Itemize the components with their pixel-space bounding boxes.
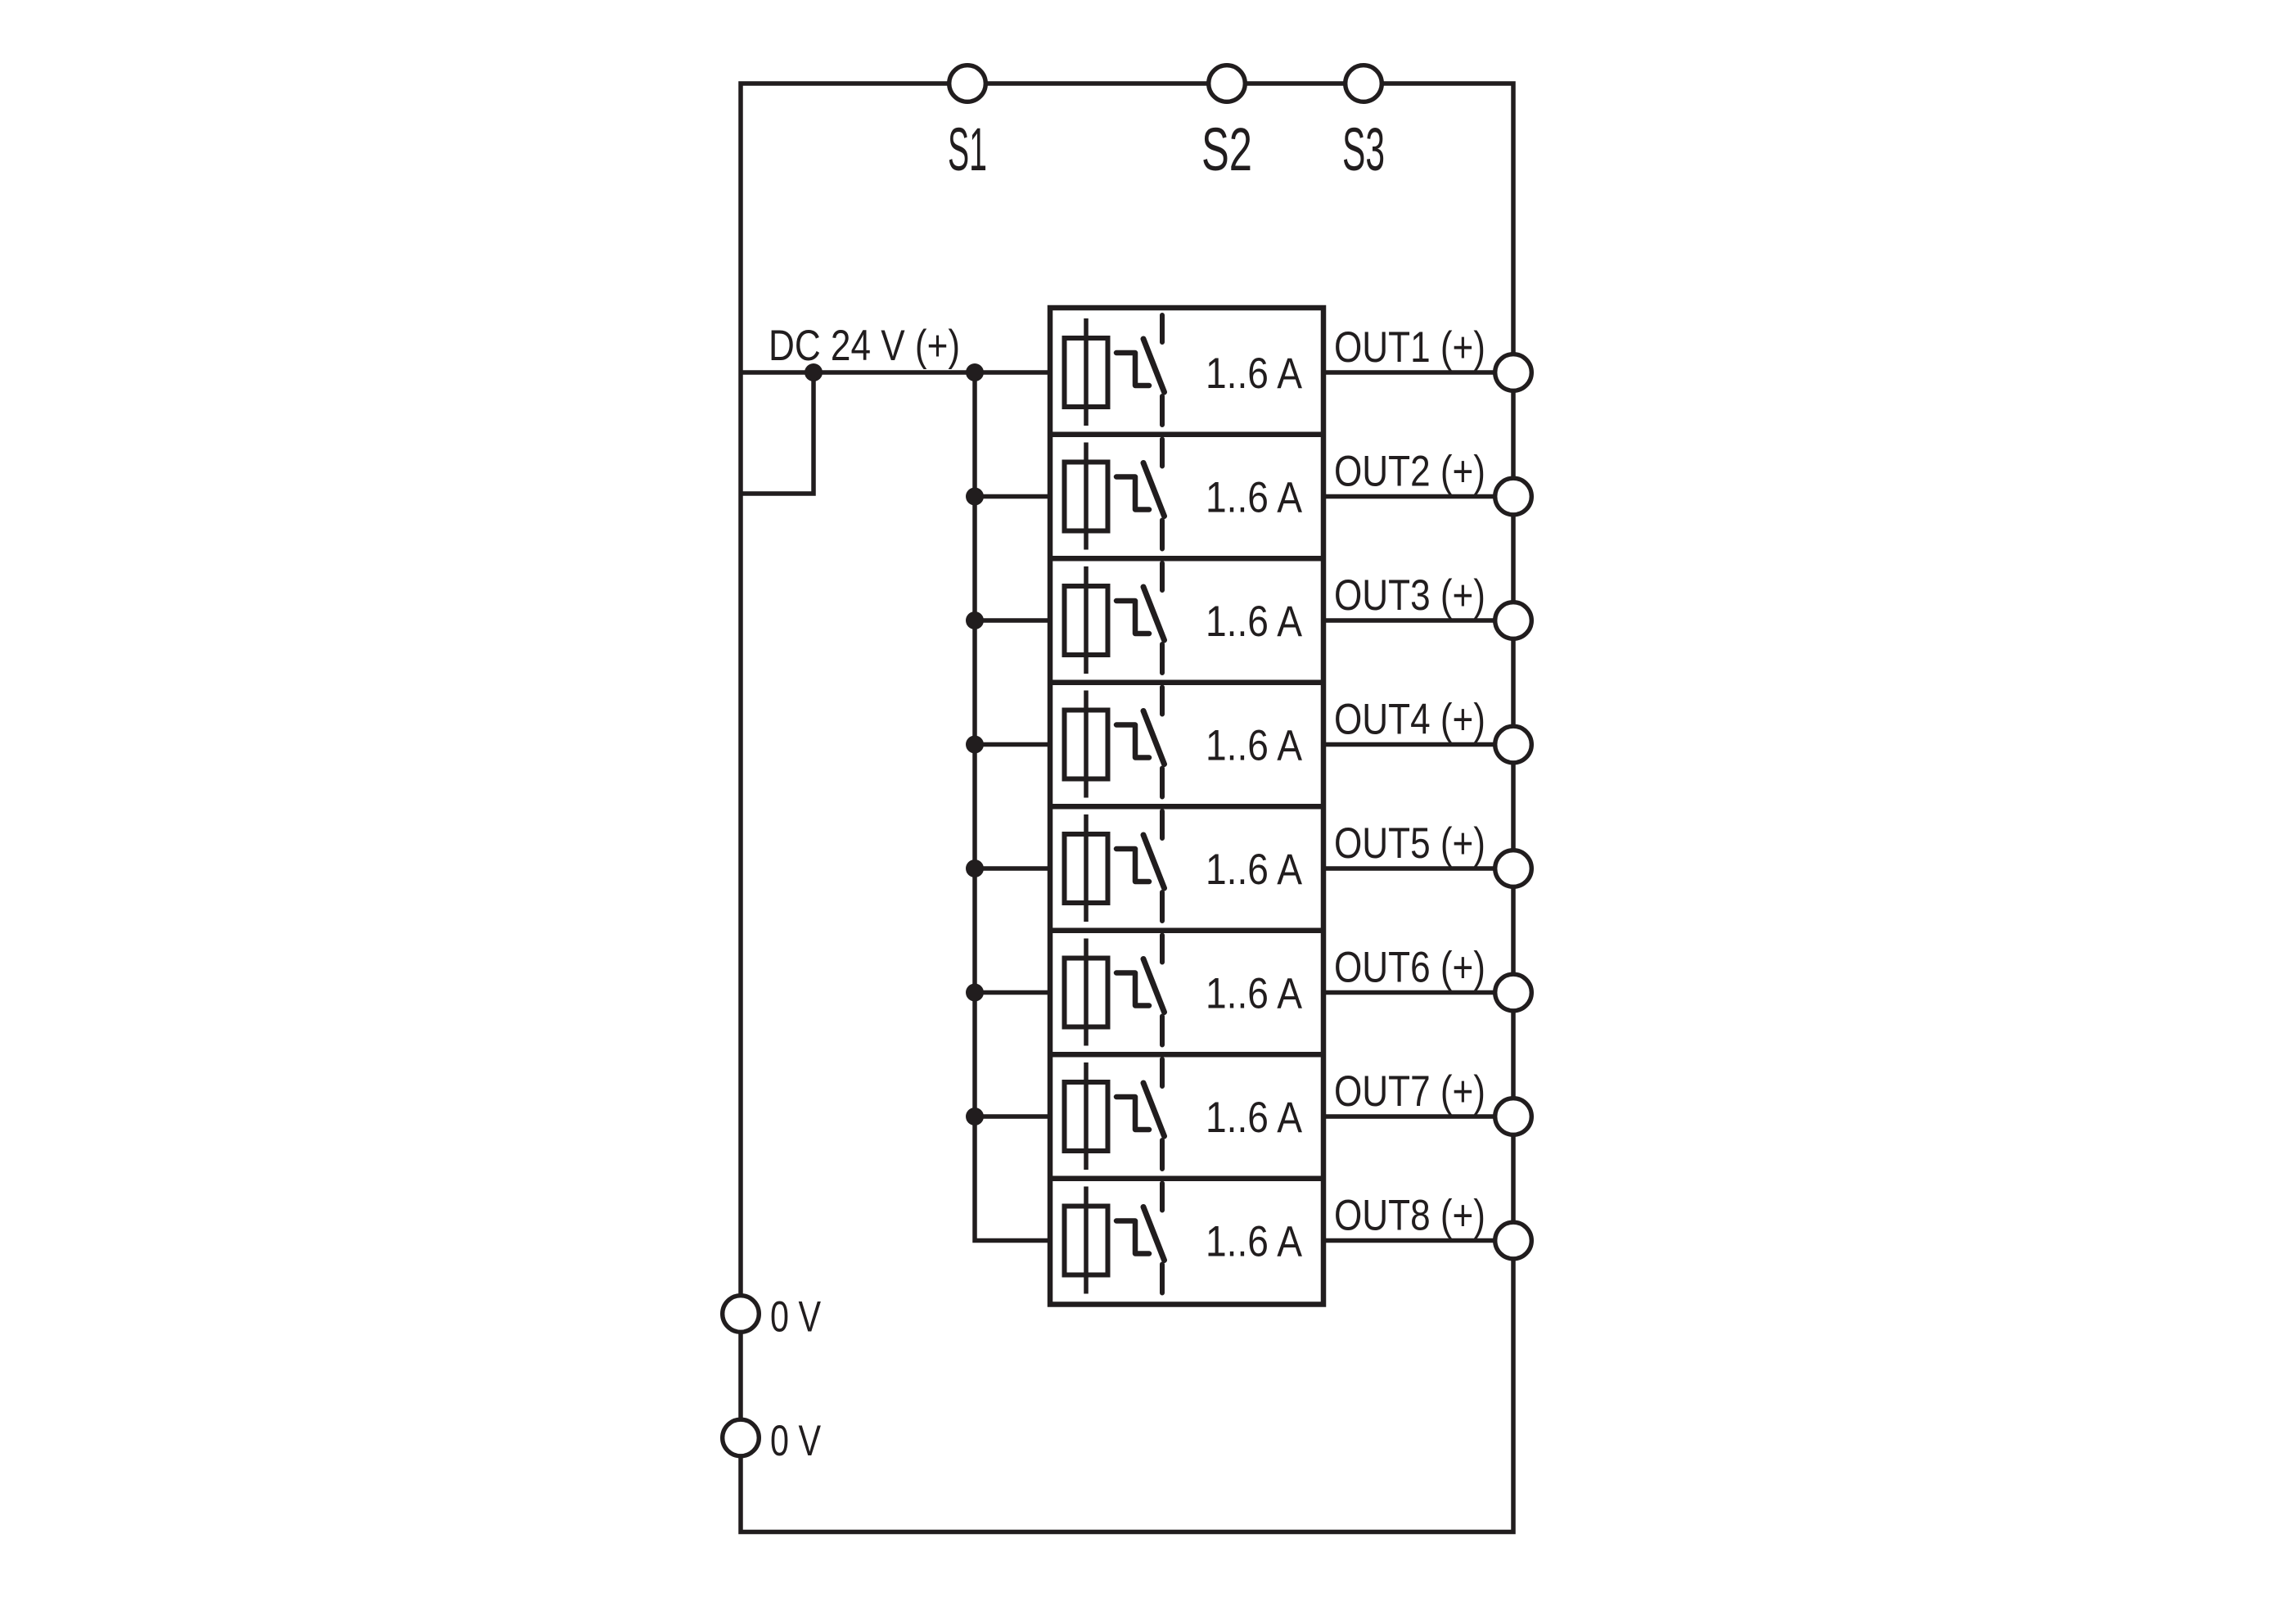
svg-text:DC 24 V (+): DC 24 V (+)	[769, 322, 960, 370]
svg-text:1..6 A: 1..6 A	[1206, 1218, 1303, 1266]
svg-text:OUT2 (+): OUT2 (+)	[1334, 448, 1485, 496]
svg-text:OUT4 (+): OUT4 (+)	[1334, 696, 1485, 744]
svg-text:S1: S1	[948, 115, 987, 183]
svg-text:1..6 A: 1..6 A	[1206, 970, 1303, 1018]
svg-text:1..6 A: 1..6 A	[1206, 722, 1303, 770]
svg-text:1..6 A: 1..6 A	[1206, 474, 1303, 522]
svg-text:OUT7 (+): OUT7 (+)	[1334, 1067, 1485, 1116]
svg-text:OUT8 (+): OUT8 (+)	[1334, 1192, 1485, 1240]
svg-text:OUT1 (+): OUT1 (+)	[1334, 323, 1485, 372]
svg-text:0 V: 0 V	[770, 1417, 821, 1465]
svg-text:S2: S2	[1201, 115, 1252, 183]
svg-text:1..6 A: 1..6 A	[1206, 350, 1303, 398]
svg-text:1..6 A: 1..6 A	[1206, 598, 1303, 646]
svg-text:OUT5 (+): OUT5 (+)	[1334, 819, 1485, 868]
svg-text:OUT3 (+): OUT3 (+)	[1334, 571, 1485, 620]
svg-text:0 V: 0 V	[770, 1293, 821, 1342]
svg-text:1..6 A: 1..6 A	[1206, 846, 1303, 894]
svg-text:1..6 A: 1..6 A	[1206, 1094, 1303, 1142]
svg-text:S3: S3	[1342, 115, 1385, 183]
svg-text:OUT6 (+): OUT6 (+)	[1334, 944, 1485, 992]
